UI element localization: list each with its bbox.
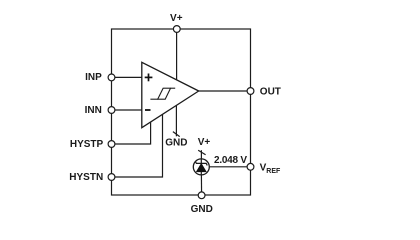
svg-text:VREF: VREF — [260, 163, 281, 175]
svg-text:GND: GND — [191, 204, 213, 215]
V+ stub tick — [198, 150, 205, 155]
wire V+ supply down to comparator — [176, 29, 178, 80]
svg-text:GND: GND — [165, 137, 187, 148]
svg-text:2.048 V: 2.048 V — [214, 155, 247, 166]
wire reference top stub to V+ — [200, 150, 202, 159]
svg-text:INP: INP — [85, 72, 102, 83]
zener diode inside reference — [200, 159, 202, 164]
wire comparator gnd stub — [175, 106, 177, 137]
device box — [112, 29, 251, 195]
gnd stub tick — [173, 132, 180, 137]
svg-text:V+: V+ — [198, 137, 211, 148]
pin circle VREF — [247, 163, 254, 170]
wire INP — [112, 76, 142, 78]
wire INN — [112, 109, 142, 111]
svg-text:HYSTN: HYSTN — [69, 172, 103, 183]
pin circle INN — [108, 107, 115, 114]
svg-text:V+: V+ — [170, 13, 183, 24]
pin circle INP — [108, 74, 115, 81]
wire reference to GND — [200, 175, 202, 195]
wire HYSTN — [112, 114, 163, 177]
svg-text:OUT: OUT — [260, 86, 281, 97]
pin circle HYSTP — [108, 141, 115, 148]
pin circle OUT — [247, 88, 254, 95]
plus input mark — [145, 74, 153, 82]
op-amp U1 comparator triangle — [142, 62, 199, 127]
hysteresis symbol — [150, 88, 175, 100]
pin circle HYSTN — [108, 174, 115, 181]
wire comparator output to OUT — [199, 90, 251, 92]
pin circle GND — [198, 192, 205, 199]
svg-text:HYSTP: HYSTP — [70, 139, 104, 150]
pin circle V+ — [173, 26, 180, 33]
svg-text:INN: INN — [85, 105, 102, 116]
minus input mark — [145, 109, 151, 111]
wire reference output to VREF — [209, 166, 250, 168]
wire HYSTP — [112, 122, 151, 144]
voltage reference D1 circle — [193, 159, 209, 175]
